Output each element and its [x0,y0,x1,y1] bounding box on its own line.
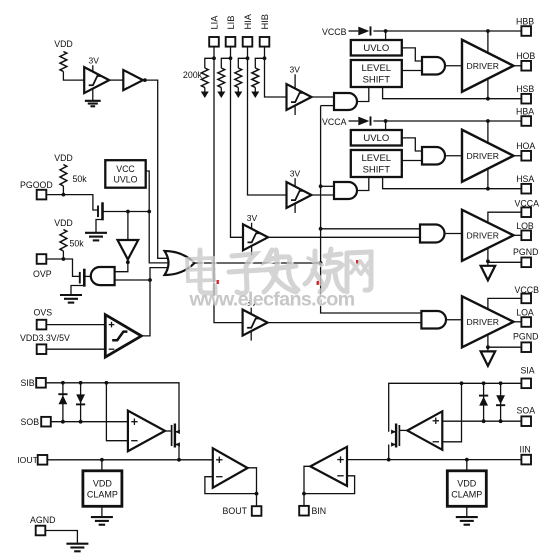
block LEVEL SHIFT 1 [351,60,402,87]
block UVLO 2 [351,130,402,146]
svg-text:LEVEL: LEVEL [362,63,392,74]
junction HIB node [263,56,267,60]
wire or-net to AND2 [321,185,334,187]
svg-text:LIA: LIA [209,15,219,30]
fet B stub arrows [175,431,179,433]
svg-text:VCCB: VCCB [322,27,347,37]
wire driver4 to LOA pin [514,321,522,323]
resistor 50k ovp [60,230,67,252]
wire uvlo2 to gate [402,138,422,151]
svg-text:3V: 3V [290,168,301,178]
wire ampB out to fet gate [165,430,172,432]
pin LOB [521,231,531,241]
svg-text:HBA: HBA [516,107,534,117]
wire driver3 to LOB pin [514,234,522,236]
svg-text:SOB: SOB [21,417,40,427]
svg-text:SOA: SOA [517,406,536,416]
junction HSA-supply [486,187,490,191]
pin HIB [260,37,270,47]
wire rail to uvlo 2 [385,121,387,130]
junction SIA-feedback [460,381,464,385]
wire SOB line [51,421,128,423]
pin IIN [521,455,531,465]
pin LOA [521,317,531,327]
comparator U-c2 (HIA 3V) [294,178,296,213]
driver U-drv1 [462,40,514,92]
wire fetA source to IIN [388,445,390,460]
wire rail to uvlo 1 [385,31,387,40]
wire LIA resistor branch [205,58,214,68]
junction inverter output [126,260,130,264]
svg-text:HBB: HBB [516,17,534,27]
gate U-andL (left facing) [91,267,115,285]
junction or-net OR output [319,261,323,265]
wire ovp net [46,259,80,276]
wire or-net vertical [321,106,422,313]
watermark red speck 1 [217,280,219,284]
junction SOB-diodeB [79,420,83,424]
ground under clamp2 [456,516,478,518]
wire ovs to comparator [46,324,105,326]
current-sink arrow HIA [234,92,242,99]
pin IOUT [38,455,48,465]
junction SOA-diodeD [499,419,503,423]
ground under vdd comparator [85,100,101,102]
junction HIA node [246,56,250,60]
wire rail section 1 [373,30,521,32]
wire pgood net [46,195,98,210]
wire driver1 supply vertical [487,31,489,99]
wire clamp1 ground stem [101,506,103,517]
current-sink arrow LIB [217,92,225,99]
transistor Q-pgood [97,206,99,218]
gate U-andb2 [422,147,445,165]
wire AND4 out to driver4 [446,319,462,321]
comparator U-c4 (LIA 3V) [250,308,252,341]
comparator U-vddmon 3V [92,65,94,101]
gate U-and2 [334,182,357,199]
junction SIB-diodeA [61,381,65,385]
resistor R-vdd-top 63k pull [60,52,67,72]
diode D-clampA1 [479,395,488,397]
svg-text:LOA: LOA [516,308,534,318]
ovs comparator plus [109,324,115,326]
svg-text:PGND: PGND [513,332,538,342]
pin LIA [209,37,219,47]
svg-text:3V: 3V [290,65,301,75]
block LEVEL SHIFT 2 [351,150,402,177]
wire SIA feedback to minus [442,383,461,442]
svg-text:VDD: VDD [54,218,73,228]
wire HIA pin to junction [247,47,249,59]
comparator U-ovs [105,315,141,357]
wire resistor to comparator input [63,72,84,81]
wire diodeB stub [80,383,82,422]
pin HBB [521,26,531,36]
svg-text:www.elecfans.com: www.elecfans.com [188,289,354,311]
wire LIA pin to junction [213,47,215,59]
wire BOUT output [247,468,256,506]
op-amp U-bufBOUT [213,448,248,487]
svg-text:SHIFT: SHIFT [363,75,391,86]
diode D-clampA2 [496,395,505,404]
junction pgood-resistor [62,193,66,197]
wire HIA column to comp2 [248,58,287,195]
resistor 50k pgood [60,165,67,187]
junction SIB-feedback [105,381,109,385]
wire vcc-uvlo output to rail A [146,171,171,263]
wire rail section 2 [373,120,521,122]
junction BOUT node [255,492,259,496]
wire pgnd3 [488,261,522,263]
resistor 200k LIA [201,68,208,88]
driver U-drv4 [462,296,514,347]
svg-text:SHIFT: SHIFT [363,165,391,176]
pin HIA [243,37,253,47]
wire HIA resistor branch [238,58,247,68]
wire LIB resistor branch [221,58,230,68]
wire buffer output to OR column [143,80,171,258]
pin SIA [521,379,531,389]
comparator U-c1 (HIB 3V) [294,74,296,115]
wire ovp mosfet drain to andL [84,275,91,277]
svg-text:SIA: SIA [521,366,535,376]
fet A stub arrows [392,431,396,433]
svg-text:VCCA: VCCA [322,117,347,127]
junction driver3 pgnd [486,259,490,263]
svg-text:UVLO: UVLO [363,43,389,54]
junction rail-uvlo 2 [384,119,388,123]
junction SIA-diodeC [482,381,486,385]
wire clamp2 stub [466,460,468,471]
wire driver2 supply vertical [487,121,489,189]
junction LIB node [229,56,233,60]
svg-text:50k: 50k [73,174,88,184]
wire ovp resistor bottom [62,251,64,259]
wire driver2 to HOA pin [514,155,522,157]
wire HIB resistor to arrow [254,88,256,92]
junction rail-driver supply 1 [486,29,490,33]
pin PGOOD [37,190,47,200]
junction LIA node [212,56,216,60]
junction IIN-fetA [387,458,391,462]
wire VCCA text to diode [349,120,359,122]
pin VCCA 3 [521,207,531,217]
junction SOA-diodeC [482,419,486,423]
resistor 200k HIB [252,68,259,88]
svg-text:LEVEL: LEVEL [362,153,392,164]
svg-text:VDD: VDD [93,478,113,488]
gate U-or (3 input) [165,251,195,275]
svg-text:AGND: AGND [30,515,55,525]
wire BIN output [304,466,311,506]
transistor Q-senseA [398,425,400,446]
wire HIB resistor branch [255,58,264,68]
resistor 200k LIB [218,68,225,88]
wire AND2 out to level-shift2 [357,177,369,191]
pin VCCB 4 [521,294,531,304]
junction IOUT-fetB [177,458,181,462]
wire diodeA stub [62,383,64,422]
ground (power) under driver4 [481,351,496,366]
junction IIN-clamp [465,458,469,462]
watermark red speck 2 [317,281,319,285]
ground (power) under driver3 [481,266,496,281]
wire LIA resistor to arrow [204,88,206,92]
svg-text:IOUT: IOUT [17,455,38,465]
ground under clamp1 [91,516,113,518]
junction buffer output node [143,78,147,82]
pin HOA [521,151,531,161]
inverter U-inv (pointing down) [118,240,139,260]
svg-text:CLAMP: CLAMP [87,489,118,499]
svg-text:VDD: VDD [54,39,73,49]
wire HIB pin to junction [264,47,266,59]
junction rail-driver supply 2 [486,119,490,123]
pin HOB [521,61,531,71]
wire VCCB to driver top [488,298,522,352]
wire HSB line [383,87,522,99]
block VCC UVLO [105,160,145,188]
wire clamp1 stub [101,460,103,471]
resistor 200k HIA [235,68,242,88]
junction HSB-supply [486,97,490,101]
wire pgood mosfet drain line [103,211,150,213]
junction IOUT-clamp [100,458,104,462]
svg-text:HIB: HIB [260,14,270,30]
wire levelshift2 to gate [402,160,422,162]
gate U-and1 [334,93,357,110]
wire OR output [195,262,321,264]
svg-text:BOUT: BOUT [223,506,248,516]
svg-text:PGND: PGND [513,247,538,257]
diode D-clampB1 [58,393,67,395]
pin SOA [521,416,531,426]
junction driver4 pgnd [486,345,490,349]
junction BIN node [302,492,306,496]
ovs comparator hysteresis [112,332,127,341]
wire resistor bottom to pgood [62,186,64,195]
wire or-net to AND3 [321,228,420,230]
wire HIB column to comp1 [265,58,287,97]
diode D-clampB2 [76,394,85,403]
svg-text:HIA: HIA [243,13,253,29]
op-amp U-ampB (sense B) [128,411,165,452]
block VDD CLAMP 1 [83,471,122,507]
wire drain to inverter [127,212,129,241]
wire gate1 to driver [445,65,462,67]
wire IOUT line [47,459,213,461]
junction drain-inverter branch [126,210,130,214]
wire BOUT feedback [205,477,257,494]
wire diodeC stub [483,383,485,421]
wire SIB feedback to minus [106,383,128,441]
wire LIB resistor to arrow [220,88,222,92]
pin VDD3.3V/5V [37,344,47,354]
wire comparator to buffer [109,79,123,81]
gate U-and3 [420,225,445,243]
current-sink arrow LIA [201,92,209,99]
op-amp U-bufBIN [310,447,347,486]
block UVLO 1 [351,40,402,56]
wire driver1 to HOB pin [514,65,522,67]
svg-text:VDD: VDD [54,153,73,163]
watermark chinese text (hand-drawn strokes) [187,249,373,295]
svg-text:LOB: LOB [516,221,534,231]
junction or-net AND2 tap [319,184,323,188]
svg-text:DRIVER: DRIVER [467,61,499,71]
junction railB and-line [148,278,152,282]
svg-text:SIB: SIB [21,378,35,388]
svg-text:HSB: HSB [516,84,534,94]
wire pgood mosfet source to ground [96,220,103,233]
wire comp4 to AND4 [267,322,421,324]
wire inverter output down [115,260,128,272]
junction or-net AND3 tap [319,227,323,231]
ovs comparator minus [109,348,115,350]
svg-text:200k: 200k [183,70,203,80]
wire pgnd4 [488,346,522,348]
svg-text:50k: 50k [70,239,85,249]
wire fetB source to IOUT [178,445,180,460]
wire SOA line [442,420,521,422]
wire HIA resistor to arrow [237,88,239,92]
wire gate2 to driver [445,155,462,157]
wire AND1 out to level-shift1 [357,87,369,102]
junction ovp-resistor [62,257,66,261]
svg-text:HSA: HSA [516,174,534,184]
watermark red speck 3 [356,260,358,263]
svg-text:DRIVER: DRIVER [467,317,499,327]
svg-text:DRIVER: DRIVER [467,151,499,161]
current-sink arrow HIB [251,92,259,99]
gate U-andb1 [422,57,445,75]
ground under ovp mosfet [60,294,82,296]
svg-text:CLAMP: CLAMP [451,489,482,499]
pin HSA [521,184,531,194]
driver U-drv3 [462,210,514,261]
wire comp2 to AND2 [311,194,334,196]
wire VCCB text to diode [349,30,359,32]
wire IIN line [347,459,521,461]
wire BIN feedback [304,476,355,494]
wire vdd33 to comparator [46,348,105,350]
wire comp3 to AND3 [268,236,420,238]
pin PGND 4 [521,342,531,352]
junction SOB-diodeA [61,420,65,424]
pin BOUT [252,506,262,516]
wire LIB column to comp3 [231,58,244,237]
pin SIB [36,378,46,388]
pin SOB [41,417,51,427]
svg-text:OVP: OVP [33,269,52,279]
pin LIB [226,37,236,47]
wire AND3 out to driver3 [445,233,463,235]
wire levelshift1 to gate [402,70,422,72]
ground AGND [66,543,88,545]
svg-text:VDD: VDD [457,478,477,488]
pin AGND [36,526,46,536]
junction SIB-diodeB [79,381,83,385]
junction drain-railA [147,210,151,214]
svg-text:UVLO: UVLO [114,174,138,184]
svg-text:IIN: IIN [520,445,531,455]
pin PGND 3 [521,258,531,268]
svg-text:BIN: BIN [312,506,327,516]
transistor Q-senseB [171,425,173,446]
block VDD CLAMP 2 [447,471,486,507]
wire SIB line [46,383,179,432]
comparator U-c3 (LIB 3V) [251,223,253,256]
wire uvlo1 to gate [402,48,422,61]
wire railB or-input / ovs-comp [141,268,170,336]
svg-text:UVLO: UVLO [363,133,389,144]
svg-text:OVS: OVS [34,308,53,318]
pin OVS [37,320,47,330]
svg-text:3V: 3V [89,56,100,66]
diode D-vccb1 [358,27,369,36]
op-amp U-ampA (sense A) [407,411,442,450]
wire VCCA to driver top [488,212,522,267]
wire andL lower pin to railB [115,279,150,281]
wire diodeD stub [500,383,502,421]
wire or-net to AND1 [321,105,334,107]
svg-text:LIB: LIB [226,16,236,30]
wire AGND to ground [45,531,77,544]
svg-text:HOB: HOB [516,51,535,61]
svg-text:HOA: HOA [516,141,535,151]
pin BIN [299,506,309,516]
wire HSA line [383,177,522,189]
pin HBA [521,116,531,126]
wire clamp2 ground stem [466,506,468,517]
ground under pgood mosfet [85,232,107,234]
wire comp1 to AND1 [311,96,334,98]
gate U-and4 [421,311,446,329]
transistor Q-ovp [79,272,81,284]
svg-text:VDD3.3V/5V: VDD3.3V/5V [20,333,70,343]
wire ovp mosfet source to ground [71,286,84,295]
pin HSB [521,94,531,104]
svg-text:VCC: VCC [116,164,135,174]
junction rail-uvlo 1 [384,29,388,33]
svg-text:DRIVER: DRIVER [467,230,499,240]
pin OVP [37,254,47,264]
diode D-vcca2 [358,117,369,126]
svg-text:PGOOD: PGOOD [20,180,53,190]
wire LIB pin to junction [230,47,232,59]
svg-text:3V: 3V [247,213,258,223]
junction SIA-diodeD [499,381,503,385]
wire SIA line [389,383,522,432]
wire LIA column to comp4 [214,58,243,322]
wire ampA out to fet gate [399,429,407,431]
buffer U-buf1 [123,70,143,90]
driver U-drv2 [462,130,514,182]
